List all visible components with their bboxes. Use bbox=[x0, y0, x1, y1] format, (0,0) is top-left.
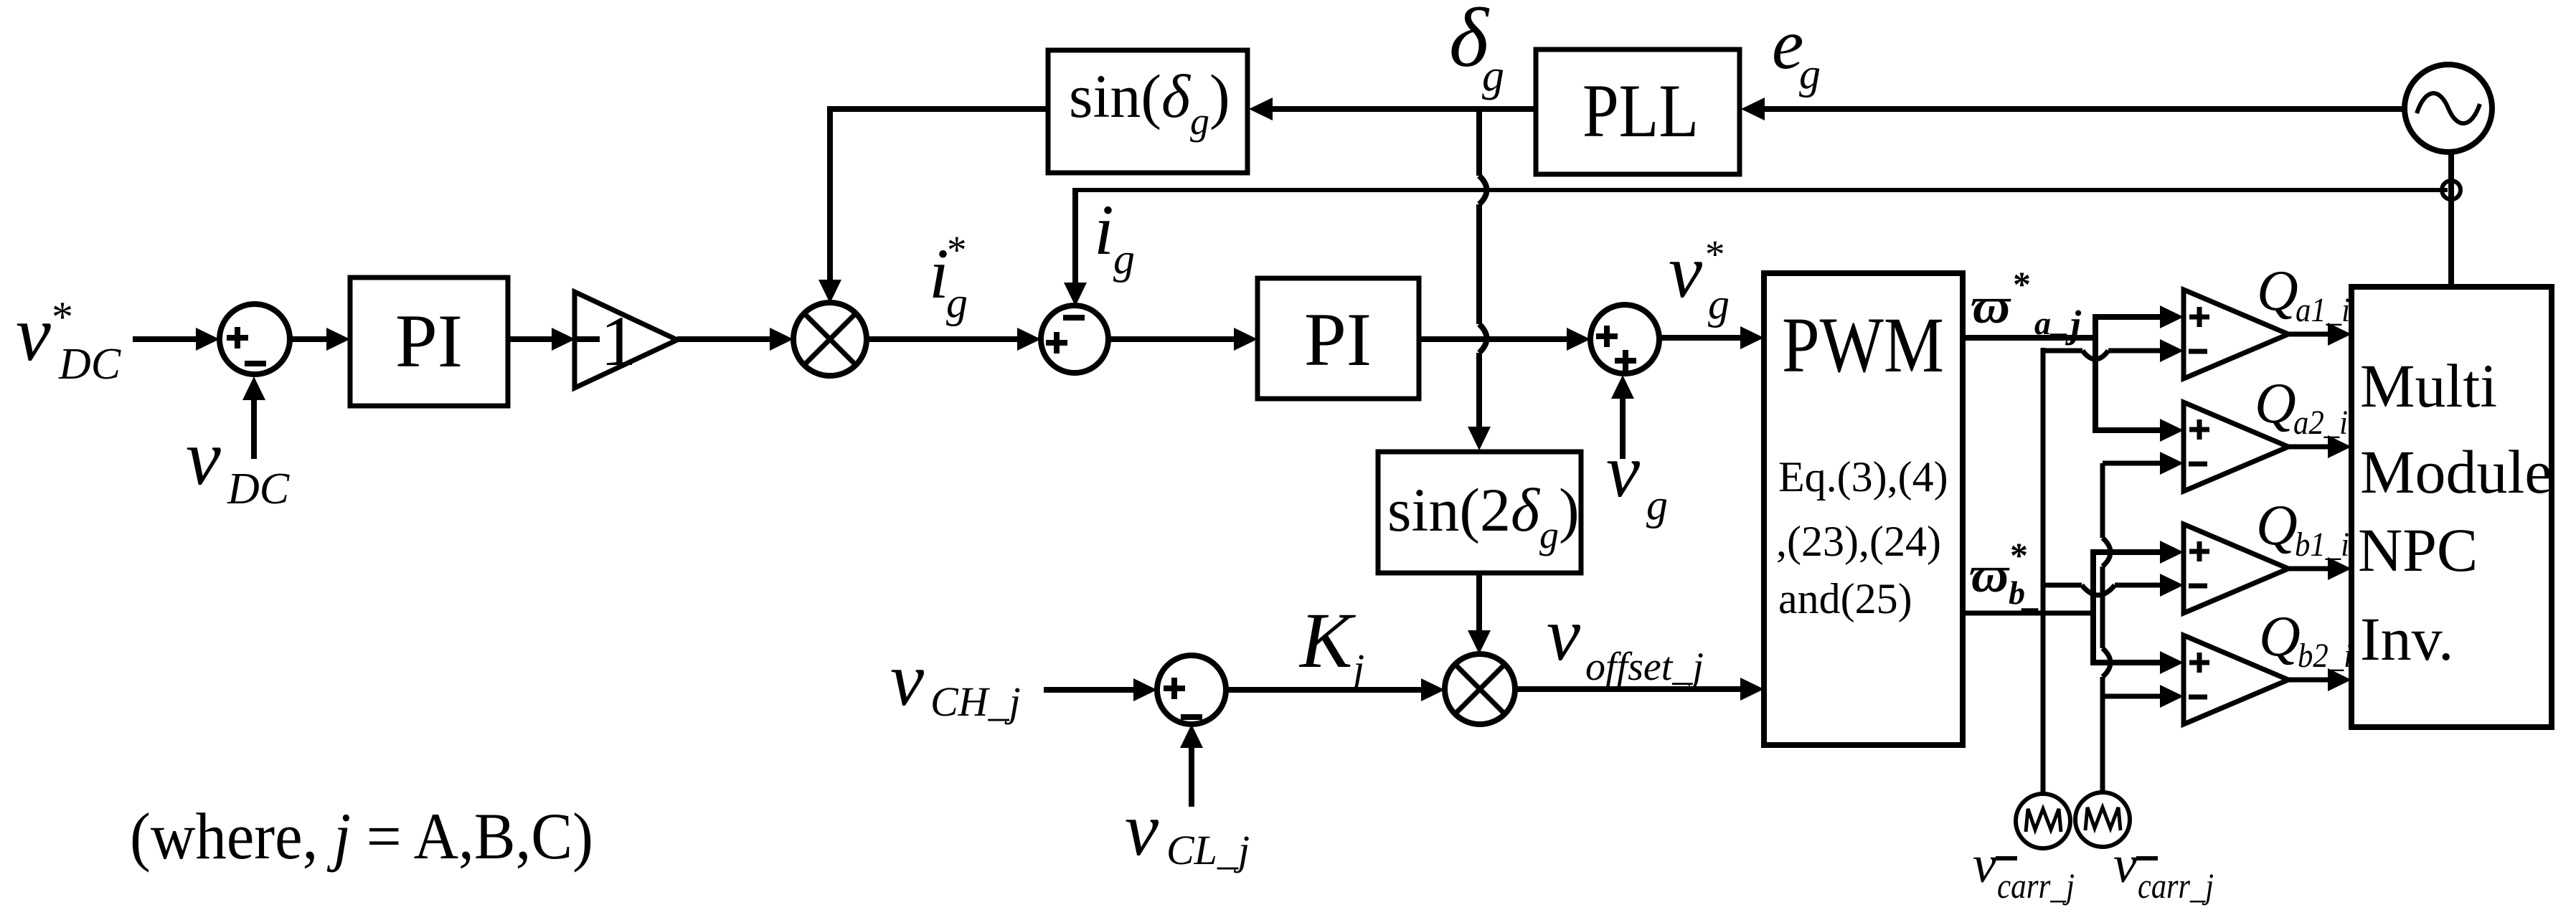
wire comparator A2 output bbox=[2288, 435, 2351, 458]
node v_CL_j label bbox=[1125, 787, 1250, 873]
svg-text:g: g bbox=[946, 279, 968, 326]
svg-text:PWM: PWM bbox=[1782, 301, 1944, 389]
wire PLL output delta_g to sin block bbox=[1249, 98, 1536, 120]
node Q_b1_i label bbox=[2256, 494, 2349, 564]
svg-text:v: v bbox=[890, 637, 925, 721]
node e_g label bbox=[1772, 4, 1821, 98]
wire v*_DC to summing junction S1 bbox=[133, 328, 220, 351]
node v-bar_carr_j label 2 bbox=[2113, 835, 2214, 906]
wire PI1 to gain bbox=[508, 328, 575, 351]
wire v_CL_j up into S4 bbox=[1180, 724, 1203, 807]
node w*_a_j label bbox=[1971, 264, 2082, 346]
wire sin(2delta_g) to multiplier M2 bbox=[1468, 573, 1491, 654]
node Q_a2_i label bbox=[2255, 372, 2348, 442]
note (where, j = A,B,C) bbox=[130, 800, 593, 873]
node v_offset_j label bbox=[1547, 592, 1704, 689]
op-block PI1 (DC voltage PI controller) bbox=[350, 278, 508, 406]
wire comparator B1 output bbox=[2288, 557, 2351, 580]
svg-text:v: v bbox=[1669, 229, 1703, 313]
wire i_g feedback drop into S2 bbox=[1064, 188, 1087, 306]
node K_j label bbox=[1298, 597, 1364, 692]
svg-text:*: * bbox=[947, 228, 967, 272]
svg-text:DC: DC bbox=[58, 340, 121, 389]
svg-text:v: v bbox=[1125, 787, 1159, 871]
wire carrier1 to comparator A1 - input (hop over branch) bbox=[2043, 339, 2184, 362]
wire S1 to PI block bbox=[290, 328, 350, 351]
wire S2 to PI2 bbox=[1108, 328, 1258, 351]
wire AC source down to NPC inverter bbox=[2448, 152, 2454, 287]
svg-text:Q: Q bbox=[2255, 372, 2296, 435]
svg-text:Multi: Multi bbox=[2360, 351, 2497, 420]
wire to comparator A1 + input bbox=[2095, 305, 2184, 328]
wire to comparator B2 + input bbox=[2093, 651, 2184, 674]
wire to comparator B1 + input bbox=[2093, 541, 2184, 564]
wire i_g feedback long line bbox=[1075, 188, 2448, 192]
node v_g label bbox=[1606, 429, 1668, 528]
svg-text:*: * bbox=[2010, 535, 2028, 575]
node v_CH_j label bbox=[890, 637, 1021, 725]
svg-text:Module: Module bbox=[2360, 437, 2552, 506]
summing junction S3 (v*_g) bbox=[1590, 305, 1659, 374]
svg-text:*: * bbox=[1705, 232, 1725, 276]
node w*_b label bbox=[1970, 535, 2039, 613]
comparator B2 (op-amp triangle) bbox=[2184, 635, 2288, 724]
svg-text:NPC: NPC bbox=[2358, 516, 2478, 584]
comparator A2 (op-amp triangle) bbox=[2184, 402, 2288, 491]
node v*_g label bbox=[1669, 229, 1730, 328]
block Multi Module NPC Inverter bbox=[2351, 287, 2552, 727]
wire w*_b from PWM to branch-b bbox=[1963, 611, 2093, 616]
svg-text:_: _ bbox=[2049, 302, 2067, 338]
wire v_DC up into S1 bbox=[242, 376, 265, 459]
svg-text:a2_i: a2_i bbox=[2293, 404, 2348, 442]
svg-text:v: v bbox=[1973, 835, 1996, 894]
svg-text:CH_j: CH_j bbox=[930, 678, 1021, 725]
wire M2 to PWM bbox=[1515, 678, 1764, 701]
node Q_a1_i label bbox=[2257, 260, 2350, 329]
op-block PI2 (current PI controller) bbox=[1258, 278, 1419, 399]
node i*_g label bbox=[929, 228, 968, 326]
wire carrier1 vertical bbox=[2041, 348, 2046, 794]
wire gain to multiplier M1 bbox=[677, 328, 793, 351]
node v-bar_carr_j label 1 bbox=[1973, 835, 2075, 906]
wire carrier2 to comparator A2 - input bbox=[2103, 452, 2184, 475]
svg-text:carr_j: carr_j bbox=[2138, 866, 2214, 906]
svg-text:v: v bbox=[2113, 835, 2137, 894]
svg-text:a1_i: a1_i bbox=[2296, 291, 2350, 329]
carrier generator 2 (sawtooth source) bbox=[2075, 792, 2130, 847]
node v*_DC input label bbox=[16, 290, 121, 389]
wire e_g from AC source to PLL bbox=[1741, 98, 2405, 120]
svg-text:ϖ: ϖ bbox=[1971, 277, 2011, 334]
wire carrier2 vertical with hops bbox=[2103, 463, 2110, 792]
svg-text:Q: Q bbox=[2256, 494, 2298, 557]
block PWM with equations bbox=[1764, 273, 1963, 745]
svg-text:i: i bbox=[1094, 190, 1114, 270]
carrier generator 1 (sawtooth source) bbox=[2016, 794, 2070, 848]
svg-text:Inv.: Inv. bbox=[2360, 604, 2454, 673]
node i_g label bbox=[1094, 190, 1135, 283]
wire v_g up into S3 bbox=[1611, 375, 1634, 459]
wire comparator B2 output bbox=[2288, 668, 2351, 691]
wire comparator A1 output bbox=[2288, 323, 2351, 346]
node delta_g label bbox=[1449, 0, 1504, 100]
svg-text:CL_j: CL_j bbox=[1166, 827, 1250, 873]
comparator A1 (op-amp triangle) bbox=[2184, 290, 2288, 379]
svg-text:Q: Q bbox=[2259, 605, 2301, 668]
svg-text:DC: DC bbox=[227, 465, 290, 513]
svg-text:g: g bbox=[1799, 50, 1821, 98]
block sin(2delta_g) bbox=[1378, 452, 1581, 573]
svg-text:*: * bbox=[2013, 264, 2031, 304]
svg-text:v: v bbox=[16, 290, 51, 377]
svg-text:g: g bbox=[1646, 481, 1668, 528]
wire S4 to M2 bbox=[1226, 678, 1445, 701]
node v_DC feedback label bbox=[186, 414, 290, 513]
svg-text:b1_i: b1_i bbox=[2295, 526, 2349, 564]
svg-text:(where, j = A,B,C): (where, j = A,B,C) bbox=[130, 800, 593, 873]
svg-text:v: v bbox=[186, 414, 221, 501]
comparator B1 (op-amp triangle) bbox=[2184, 524, 2288, 613]
svg-text:offset_j: offset_j bbox=[1585, 645, 1704, 689]
svg-text:,(23),(24): ,(23),(24) bbox=[1776, 518, 1941, 565]
wire branch-a vertical bbox=[2093, 314, 2098, 433]
summing junction S4 (capacitor voltage error) bbox=[1157, 655, 1226, 724]
wire carrier2 T-junction to comparator B2 - input bbox=[2103, 685, 2184, 708]
svg-text:PI: PI bbox=[395, 299, 463, 383]
wire PI2 to summing junction S3 bbox=[1419, 328, 1590, 351]
multiplier M1 (circle with X) bbox=[793, 303, 867, 376]
summing junction S2 (current error) bbox=[1041, 305, 1108, 373]
node current-sense (small circle) bbox=[2442, 181, 2461, 199]
summing junction S1 (vDC error) bbox=[220, 304, 290, 374]
wire sin(delta_g) output to M1 bbox=[818, 106, 1048, 303]
wire M1 to summing junction S2 bbox=[867, 328, 1041, 351]
svg-text:K: K bbox=[1298, 597, 1357, 684]
wire delta_g vertical distribution with hops bbox=[1468, 109, 1491, 450]
svg-text:carr_j: carr_j bbox=[1997, 866, 2075, 906]
block PLL bbox=[1536, 49, 1740, 174]
node Q_b2_i label bbox=[2259, 605, 2352, 675]
svg-text:g: g bbox=[1482, 52, 1504, 100]
svg-text:Eq.(3),(4): Eq.(3),(4) bbox=[1778, 453, 1948, 501]
svg-text:v: v bbox=[1547, 592, 1581, 676]
svg-text:Q: Q bbox=[2257, 260, 2298, 323]
block sin(delta_g) bbox=[1048, 50, 1247, 173]
svg-text:g: g bbox=[1113, 235, 1135, 283]
wire v_CH_j to summing junction S4 bbox=[1044, 678, 1157, 701]
svg-text:*: * bbox=[52, 293, 73, 341]
wire carrier1 T-junction to comparator B1 - input (hop) bbox=[2043, 574, 2184, 597]
wire branch-b vertical bbox=[2090, 549, 2096, 665]
svg-text:b2_i: b2_i bbox=[2298, 637, 2352, 675]
multiplier M2 (circle with X) bbox=[1445, 654, 1515, 724]
AC source (grid) bbox=[2405, 65, 2492, 152]
wire S3 to PWM block bbox=[1659, 326, 1764, 349]
wire to comparator A2 + input bbox=[2095, 419, 2184, 442]
gain block -1 (triangle) bbox=[573, 292, 677, 388]
wire w*_a from PWM to branch bbox=[1963, 335, 2095, 341]
svg-text:PI: PI bbox=[1304, 298, 1372, 381]
svg-text:1: 1 bbox=[600, 301, 636, 381]
svg-text:ϖ: ϖ bbox=[1970, 546, 2010, 603]
svg-text:_: _ bbox=[2021, 577, 2039, 613]
svg-text:g: g bbox=[1708, 280, 1730, 328]
svg-text:PLL: PLL bbox=[1582, 69, 1699, 153]
svg-text:and(25): and(25) bbox=[1778, 575, 1912, 622]
